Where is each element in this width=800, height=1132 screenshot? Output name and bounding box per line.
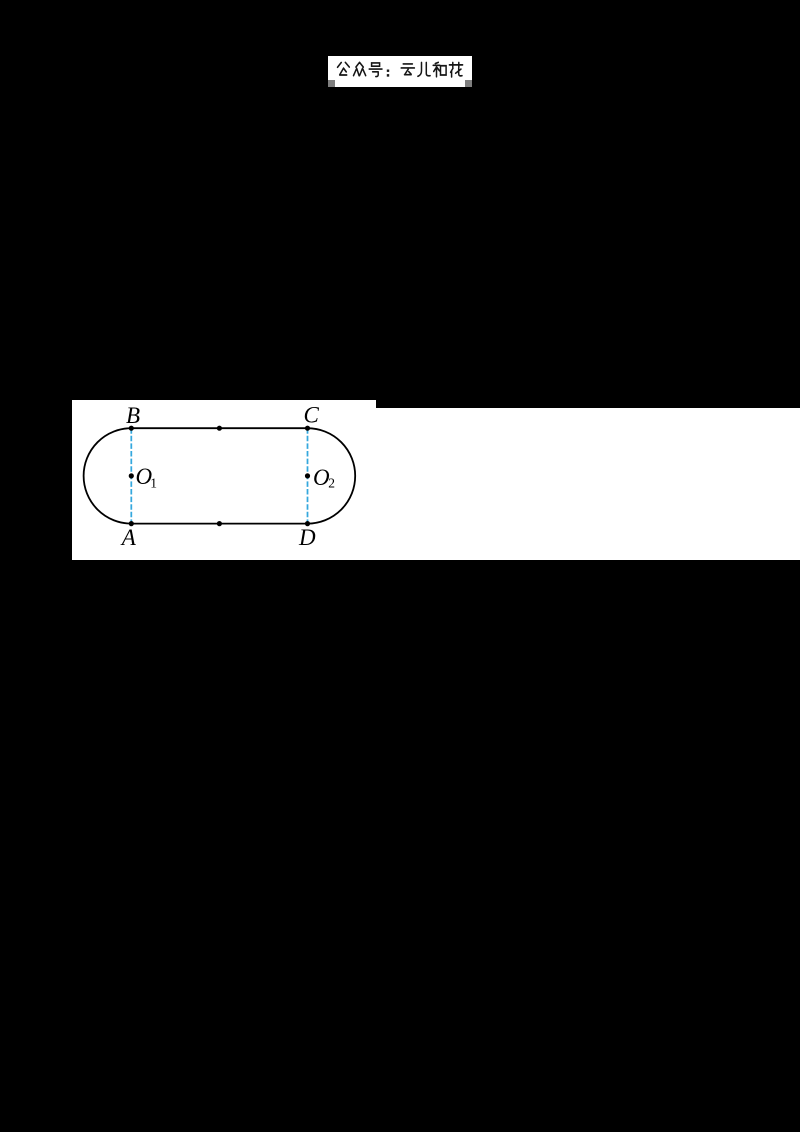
svg-text:B: B [126, 403, 140, 428]
svg-text:C: C [304, 402, 320, 427]
svg-text:D: D [298, 525, 316, 550]
svg-text:2: 2 [328, 476, 335, 491]
svg-text:A: A [120, 525, 137, 550]
svg-text:1: 1 [150, 476, 157, 491]
